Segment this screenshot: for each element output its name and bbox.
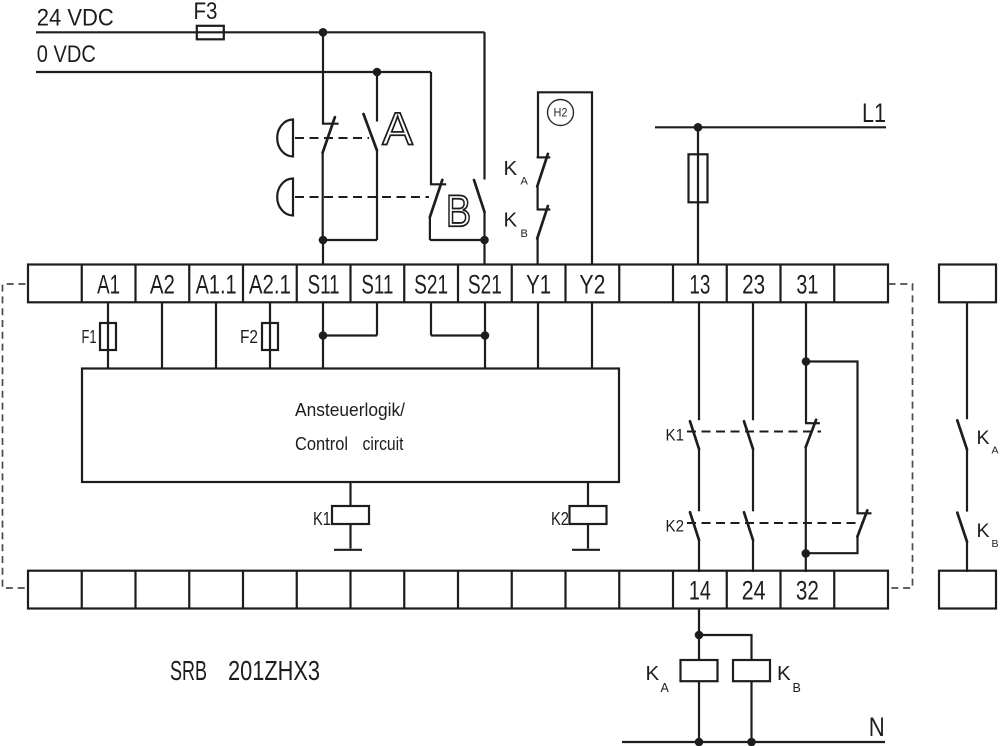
wire KB coil to N [750,681,752,742]
wire A bottom link [322,239,377,241]
wire A1 to logic [107,302,109,369]
wire K2 coil to ground [587,524,589,549]
svg-text:23: 23 [742,270,765,300]
wire L1 to terminal 13 [697,127,699,265]
wire 13 to K1 contact [698,302,700,420]
wire to terminal S11 [322,240,324,266]
contact K2 pole3 foot [857,512,872,514]
node junction KA KB feed [695,631,704,640]
node junction KA to N [695,738,704,746]
contact K2 pole3 blade [857,510,867,536]
svg-text:SRB: SRB [170,655,207,686]
svg-text:K: K [504,208,518,231]
wire to terminal S21 [483,240,485,266]
svg-text:A: A [992,445,999,457]
node junction 24VDC to A [319,28,328,37]
wire external box to KA contact [966,302,968,419]
mushroom actuator 1 [277,120,293,157]
wire 0VDC rail [36,71,431,73]
relay coil K1 [332,506,369,524]
svg-text:K: K [504,157,518,180]
svg-text:A1.1: A1.1 [196,270,237,300]
contact A left lower lead [322,153,324,241]
wire terminal 14 to N [698,609,700,743]
svg-text:A: A [661,681,670,695]
wire L1 rail [655,126,886,128]
mushroom actuator 2 [277,179,293,216]
wire 0VDC down to B left lead [430,72,432,184]
contact KB external blade [957,513,967,542]
svg-text:B: B [793,681,801,695]
svg-text:14: 14 [689,576,711,606]
fuse F1 [100,323,116,350]
wire KB to terminal Y1 [536,238,538,266]
wire KA to KB external [966,449,968,511]
node junction bypass bottom [802,549,811,558]
node junction S21 [480,236,489,245]
dashed link K1 [687,431,821,433]
svg-text:S21: S21 [414,270,448,300]
svg-text:K1: K1 [313,509,331,529]
contact A blade [364,114,378,151]
svg-text:31: 31 [796,270,818,300]
svg-text:Y2: Y2 [579,270,605,300]
wire KB external to bottom box [966,542,968,572]
contact A upper stub [376,72,378,122]
svg-text:F1: F1 [82,327,97,347]
svg-text:A: A [521,176,529,188]
dashed actuator link 2 [295,196,429,198]
wire K1 pole3 to terminal 32 [805,447,807,572]
wire S21 net [431,302,485,369]
wire 31 to K1 pole3 [805,302,807,423]
ground K1 [334,549,362,551]
wire A2 to logic [161,302,163,369]
contact KB blade [537,206,548,239]
svg-text:S11: S11 [308,270,340,300]
svg-text:S21: S21 [468,270,502,300]
wire logic to K2 coil [587,482,589,506]
wire K1 to K2 pole2 [752,449,754,511]
contact K2 pole2 blade [744,512,753,540]
svg-text:K: K [777,662,791,685]
wire 24VDC down to B right lead [483,32,485,179]
svg-text:S11: S11 [361,270,393,300]
svg-text:K: K [646,662,660,685]
contact K1 pole3 blade [806,420,816,447]
contact A lower lead [376,151,378,241]
node junction L1 [694,123,703,132]
svg-text:K2: K2 [666,518,685,536]
wire N rail [622,741,885,743]
wire 24VDC rail [36,31,485,33]
contact K2 pole1 blade [690,512,699,540]
contact K1 pole3 foot [805,422,820,424]
svg-text:circuit: circuit [363,433,404,454]
contact KB foot [537,208,551,210]
lamp H2 [548,100,574,126]
control logic block U1 [82,369,619,483]
wire K2 pole3 return [806,536,858,553]
svg-text:Y1: Y1 [526,270,551,300]
svg-text:F3: F3 [194,0,218,25]
external contact box top [939,265,996,303]
svg-text:N: N [869,712,885,742]
wire KA-KB lead [536,186,538,210]
wire Y1 to logic [537,302,539,369]
svg-text:201ZHX3: 201ZHX3 [228,655,320,686]
contact B right lower lead [483,212,485,240]
wire logic to K1 coil [349,482,351,506]
svg-text:F2: F2 [240,327,258,347]
contact A left blade [323,117,335,153]
wire K2 pole1 to terminal 14 [698,540,700,572]
wire branch to KB coil [699,635,752,660]
contact B left blade [430,180,443,217]
svg-text:K: K [977,427,990,449]
node junction bypass top [802,357,811,366]
dashed link K2 [687,522,863,524]
contact KA external blade [957,420,967,449]
label switch B [449,195,469,226]
node junction S21 net [481,331,490,340]
dashed actuator link 1 [295,137,369,139]
fuse F2 [262,323,278,350]
wire K1 coil to ground [349,524,351,549]
wire Y2 to logic [591,302,593,369]
wire 23 to K1 contact [752,302,754,420]
svg-text:Ansteuerlogik/: Ansteuerlogik/ [295,399,406,420]
external contact box bottom [939,571,996,609]
wire A1.1 to logic [215,302,217,369]
wire K2 pole2 to terminal 24 [752,540,754,572]
contact K1 pole2 blade [744,421,753,449]
dashed enclosure left [3,284,26,588]
ground K2 [572,549,600,551]
wire H2 loop [538,92,592,265]
relay coil K2 [570,506,607,524]
fuse F4 [689,154,708,202]
wire bypass to K2 pole3 [806,362,858,514]
relay coil KA [681,660,718,681]
svg-text:Control: Control [295,433,348,454]
contact KA foot [537,156,551,158]
label switch A [382,113,413,145]
contact B left lower lead [429,217,431,240]
node junction S11 net [319,331,328,340]
node junction KB to N [747,738,756,746]
svg-text:A2.1: A2.1 [249,270,291,300]
svg-text:K1: K1 [666,427,685,445]
wire A2.1 to logic [269,302,271,369]
svg-text:A2: A2 [150,270,175,300]
contact KA blade [537,154,548,187]
fuse F3 [197,26,224,40]
svg-text:B: B [521,228,528,240]
svg-text:K2: K2 [551,509,569,529]
contact A fixed lead [322,32,324,123]
svg-text:0 VDC: 0 VDC [37,41,96,68]
svg-text:24 VDC: 24 VDC [37,5,114,32]
terminal strip bottom [28,571,888,609]
node junction 0VDC to A blade [373,68,382,77]
contact A foot [322,123,339,125]
svg-text:L1: L1 [862,98,886,128]
svg-text:32: 32 [796,576,819,606]
node junction S11 [319,236,328,245]
contact K1 pole1 blade [690,421,699,449]
relay coil KB [733,660,770,681]
dashed enclosure right [889,284,913,588]
terminal strip top [28,265,888,303]
wire K1 to K2 pole1 [698,449,700,511]
svg-text:H2: H2 [554,107,568,119]
contact B foot [430,183,446,185]
svg-text:K: K [977,520,990,542]
contact B right blade [474,180,485,212]
wire S11 net [323,302,377,369]
svg-text:B: B [992,538,999,550]
svg-text:13: 13 [689,270,710,300]
svg-text:A1: A1 [97,270,120,300]
wire B bottom link [430,239,485,241]
svg-text:24: 24 [742,576,766,606]
